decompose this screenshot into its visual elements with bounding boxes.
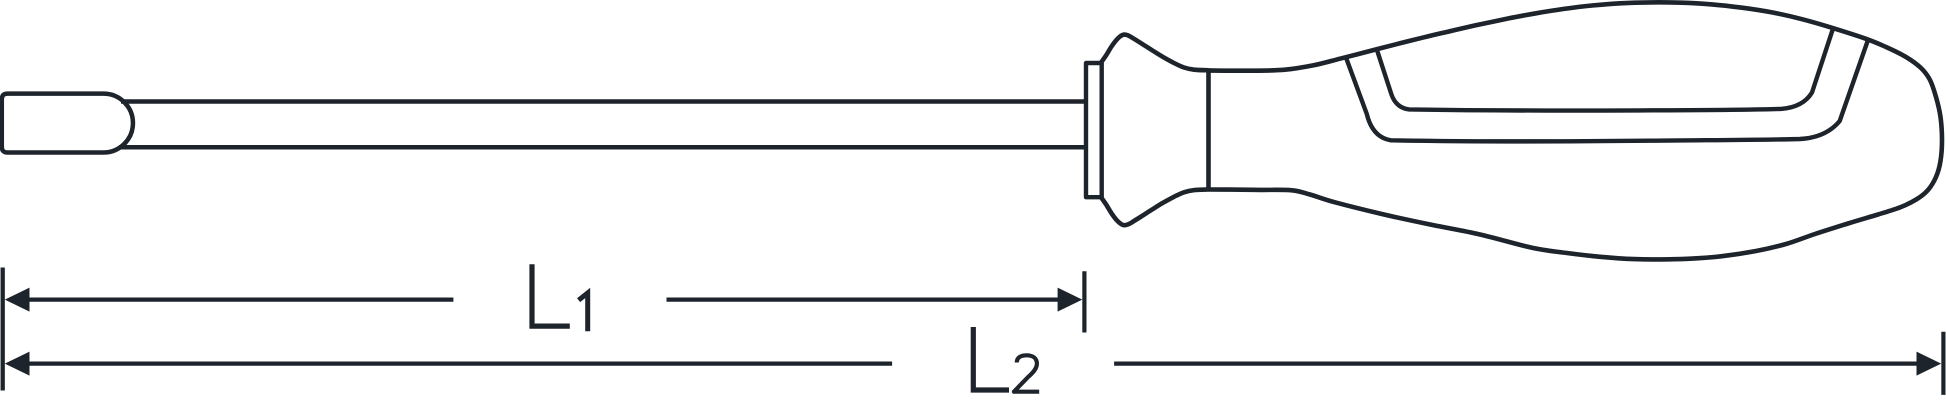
L1 right arrowhead xyxy=(1058,288,1083,312)
label L1 : subscript 1 xyxy=(579,293,588,331)
label L2 : subscript 2 xyxy=(1014,355,1039,391)
L2 right tick xyxy=(1941,332,1945,395)
L1 right tick xyxy=(1082,271,1086,332)
collar xyxy=(1086,63,1102,197)
grip inlay upper line xyxy=(1377,29,1834,111)
blade tip xyxy=(2,94,133,153)
grip inlay lower line xyxy=(1346,40,1869,141)
L1 left arrowhead xyxy=(5,288,30,312)
L1 dimension line right segment xyxy=(667,297,1064,301)
L2 right arrowhead xyxy=(1917,352,1942,376)
label L2 : letter L xyxy=(973,327,1009,390)
L2 dimension line right segment xyxy=(1114,361,1919,365)
bolster top curve xyxy=(1101,35,1209,71)
handle body with joint line xyxy=(1209,2,1943,259)
L2 left arrowhead xyxy=(5,352,30,376)
shaft bottom line xyxy=(119,145,1086,150)
bolster bottom curve xyxy=(1101,190,1209,226)
L2 dimension line left segment xyxy=(25,361,892,365)
L1 dimension line left segment xyxy=(25,297,453,301)
label L1 : letter L xyxy=(532,264,570,326)
left extension tick xyxy=(1,268,5,391)
shaft top line xyxy=(121,99,1086,104)
